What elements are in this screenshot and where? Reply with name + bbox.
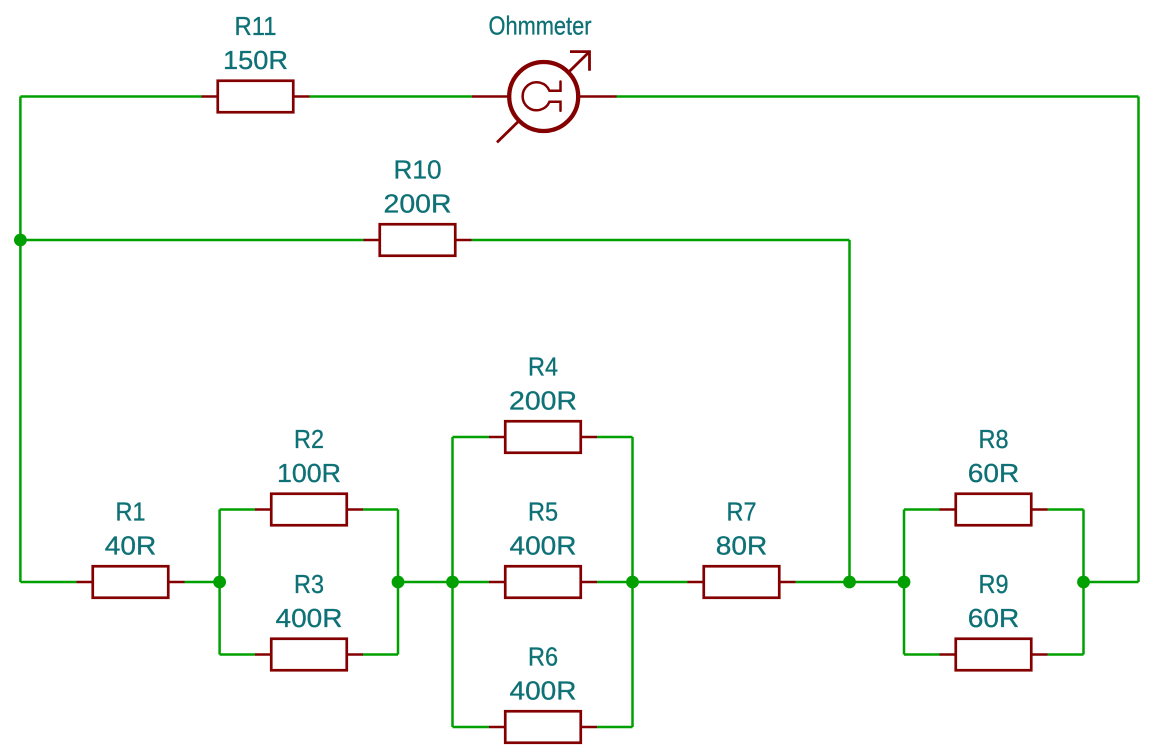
wire R2R3 left vertical (218, 510, 221, 655)
R11 pin stubs (202, 95, 310, 98)
wire top middle (R11 to Ohmmeter) (310, 95, 473, 98)
junction node F (R8R9 left) (898, 576, 911, 589)
wire R4R5R6 left vertical (451, 437, 454, 727)
R5 pin stubs (489, 581, 597, 584)
svg-text:R9: R9 (979, 569, 1009, 599)
wire to R6 left (453, 726, 490, 729)
svg-text:R6: R6 (528, 641, 558, 671)
svg-text:200R: 200R (509, 385, 577, 415)
wire R6 right (597, 726, 633, 729)
svg-text:R8: R8 (979, 424, 1009, 454)
wire top-left horizontal (20, 95, 201, 98)
wire R5 right (597, 581, 633, 584)
resistor R5 body (505, 566, 581, 598)
R8 pin stubs (940, 508, 1048, 511)
junction node A (R1 / R2R3) (213, 576, 226, 589)
resistor R1 body (93, 566, 169, 598)
wire R8R9 right vertical (1082, 510, 1085, 655)
wire to R4 left (453, 436, 490, 439)
svg-text:R1: R1 (116, 496, 146, 526)
svg-text:200R: 200R (384, 188, 452, 218)
svg-text:400R: 400R (276, 603, 343, 633)
ohmmeter M1 circle (509, 62, 578, 131)
resistor R8 body (956, 494, 1032, 526)
svg-text:400R: 400R (510, 675, 577, 705)
R10 pin stubs (364, 239, 472, 242)
resistor R11 body (218, 81, 294, 113)
ohmmeter M1 arrow head (570, 52, 590, 71)
resistor R10 body (380, 224, 456, 256)
svg-text:60R: 60R (968, 458, 1020, 488)
svg-text:R3: R3 (294, 569, 324, 599)
wire right edge bottom horizontal (1084, 581, 1139, 584)
wire R2R3 right vertical (397, 510, 400, 655)
junction node G (R8R9 right) (1077, 576, 1090, 589)
junction node on left edge (14, 234, 27, 247)
wire to R2 left (220, 508, 255, 511)
resistor R2 body (271, 494, 347, 526)
R7 pin stubs (688, 581, 796, 584)
svg-text:80R: 80R (716, 530, 768, 560)
svg-text:150R: 150R (223, 45, 288, 75)
wire to R3 left (220, 653, 255, 656)
wire R4R5R6 right vertical (631, 437, 634, 727)
R1 pin stubs (77, 581, 185, 584)
resistor R7 body (704, 566, 780, 598)
wire top right (Ohmmeter to right edge) (616, 95, 1139, 98)
R6 pin stubs (489, 726, 597, 729)
svg-text:R11: R11 (235, 11, 277, 41)
wire R4 right (597, 436, 633, 439)
svg-text:R2: R2 (294, 424, 324, 454)
svg-text:R4: R4 (528, 351, 558, 381)
wire to R9 left (904, 653, 940, 656)
svg-text:R10: R10 (394, 154, 442, 184)
wire bus node B to node C (398, 581, 453, 584)
wire row2 left (to R10) (20, 239, 363, 242)
ohmmeter M1 omega symbol (523, 82, 561, 111)
svg-text:Ohmmeter: Ohmmeter (489, 11, 592, 41)
resistor R3 body (271, 639, 347, 671)
svg-text:100R: 100R (277, 458, 341, 488)
svg-text:R7: R7 (727, 496, 757, 526)
R4 pin stubs (489, 436, 597, 439)
wire R9 right (1048, 653, 1084, 656)
wire R8R9 left vertical (903, 510, 906, 655)
junction node C (R4R5R6 left) (446, 576, 459, 589)
wire to R5 left (453, 581, 490, 584)
wire R8 right (1048, 508, 1084, 511)
R2 pin stubs (255, 508, 363, 511)
resistor R9 body (956, 639, 1032, 671)
svg-text:60R: 60R (968, 603, 1020, 633)
resistor R4 body (505, 421, 581, 453)
Ohmmeter pin stubs (472, 95, 617, 98)
svg-text:40R: 40R (105, 530, 157, 560)
ohmmeter M1 arrow shaft (497, 52, 590, 143)
wire bus to R1 (20, 581, 76, 584)
svg-text:R5: R5 (528, 496, 558, 526)
junction node E (R10 branch) (843, 576, 856, 589)
R3 pin stubs (255, 653, 363, 656)
wire row2 right (R10 to corner) (472, 239, 850, 242)
wire left edge vertical (19, 97, 22, 583)
junction node B (R2R3 right) (392, 576, 405, 589)
junction node D (R4R5R6 right) (626, 576, 639, 589)
resistor R6 body (505, 711, 581, 743)
wire R10 branch vertical (848, 240, 851, 582)
wire right edge vertical (1137, 97, 1140, 583)
wire R3 right (363, 653, 398, 656)
wire bus to R7 (633, 581, 688, 584)
wire to R8 left (904, 508, 940, 511)
wire R2 right (363, 508, 398, 511)
R9 pin stubs (940, 653, 1048, 656)
svg-text:400R: 400R (510, 530, 577, 560)
wire R1 to node A (185, 581, 220, 584)
wire R7 to R8R9 block (796, 581, 905, 584)
